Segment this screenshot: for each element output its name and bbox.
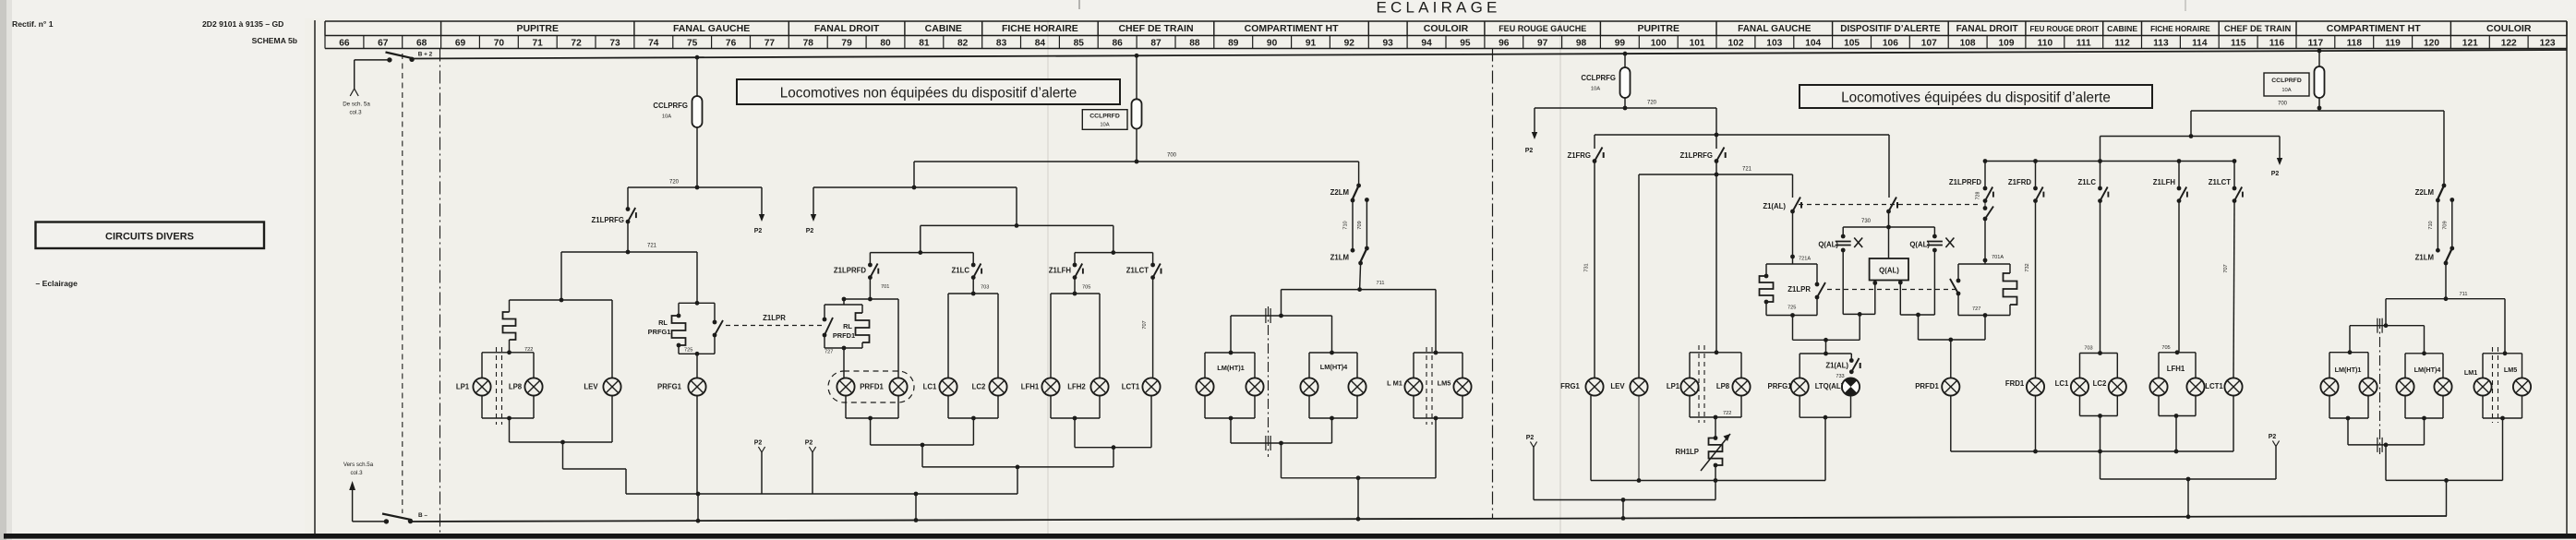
wire from B+2 to De sch. 5a arrow — [355, 59, 390, 61]
wire 368 line left — [1793, 339, 1860, 341]
svg-text:97: 97 — [1537, 38, 1548, 48]
svg-text:COULOIR: COULOIR — [2486, 23, 2532, 34]
rheostat RH1LP — [1715, 417, 1716, 438]
svg-text:Q(AL): Q(AL) — [1879, 267, 1899, 275]
wire 146 horizontal bar — [1595, 134, 1889, 136]
svg-text:111: 111 — [2076, 38, 2091, 48]
svg-text:720: 720 — [1647, 101, 1657, 106]
lamp LEV — [603, 378, 620, 395]
svg-text:LM1: LM1 — [2464, 368, 2477, 377]
svg-text:732: 732 — [2025, 263, 2030, 271]
wire lamp group top LP/LEV — [510, 299, 613, 301]
svg-text:CIRCUITS DIVERS: CIRCUITS DIVERS — [105, 232, 194, 243]
wire Z1LCT down to lamp LCT1 wire 707 — [1152, 278, 1154, 378]
svg-text:PRFG1: PRFG1 — [648, 328, 671, 336]
lamp LM(HT)1 right — [1246, 378, 1263, 395]
svg-text:RH1LP: RH1LP — [1675, 448, 1699, 456]
svg-text:FEU ROUGE DROIT: FEU ROUGE DROIT — [2029, 25, 2099, 33]
svg-text:10A: 10A — [662, 114, 671, 120]
svg-text:87: 87 — [1150, 38, 1162, 48]
svg-text:74: 74 — [648, 38, 659, 48]
wire drop 999 to 506 line — [921, 445, 923, 467]
wire LC tee — [948, 293, 998, 294]
wire 721 left drop to lamp LEV right — [1638, 174, 1640, 378]
svg-text:721: 721 — [1742, 167, 1752, 173]
switch Z1(AL) 733 above LTQ lamp — [1850, 354, 1852, 361]
wire to node 721A — [1792, 211, 1794, 257]
svg-text:68: 68 — [416, 38, 427, 48]
wire Z1LPRFG to node 721 right — [1715, 162, 1717, 175]
wire drop to LM(HT)4 tee — [1331, 316, 1333, 353]
svg-text:CHEF DE TRAIN: CHEF DE TRAIN — [2224, 23, 2292, 33]
LM(HT)4 bottom tee — [1308, 396, 1310, 418]
svg-text:LP1: LP1 — [456, 383, 470, 391]
wire 519 line — [2101, 478, 2277, 480]
wire LM feed top bar — [1231, 315, 1332, 317]
svg-text:– Eclairage: – Eclairage — [36, 279, 78, 288]
lamp LP8 right — [1732, 378, 1750, 395]
lamp LC1 right — [2071, 378, 2088, 395]
svg-text:Vers sch.5a: Vers sch.5a — [343, 462, 374, 468]
svg-text:710: 710 — [2428, 221, 2434, 229]
svg-text:703: 703 — [981, 285, 989, 291]
svg-text:Z1(AL): Z1(AL) — [1825, 362, 1848, 370]
switch Z1LC right — [2100, 162, 2101, 189]
lamp LM(HT)4 right b — [2434, 378, 2451, 395]
svg-text:LFH1: LFH1 — [1021, 383, 1040, 391]
arrow to P2 no.2 — [813, 187, 814, 220]
svg-text:Q(AL): Q(AL) — [1818, 241, 1838, 249]
switch Z1LFH right — [2178, 162, 2180, 189]
wire LFH/LCT collector — [1075, 447, 1151, 449]
svg-text:88: 88 — [1189, 38, 1200, 48]
svg-text:P2: P2 — [754, 440, 763, 447]
svg-text:COULOIR: COULOIR — [1424, 23, 1469, 34]
relay RL PRFG1 loop — [679, 302, 715, 304]
LM(HT)4 bottom tee right — [2404, 396, 2406, 418]
wire 720 to 146 bar — [1715, 108, 1717, 135]
wire RL PRFD1 to lamp PRFD1 left — [843, 348, 845, 378]
arrow to P2 right of CCLPRFD — [2279, 137, 2281, 164]
wire drop 992 to bottom bus — [915, 494, 917, 521]
svg-text:106: 106 — [1883, 38, 1898, 48]
svg-text:COMPARTIMENT HT: COMPARTIMENT HT — [2327, 23, 2421, 34]
svg-text:728: 728 — [1976, 192, 1981, 200]
svg-text:CCLPRFD: CCLPRFD — [2271, 78, 2302, 84]
box title: Locomotives equipees du dispositif d alerte — [1800, 85, 2152, 108]
svg-text:LP8: LP8 — [1716, 382, 1730, 390]
lamp LM(HT)4 left — [1300, 378, 1318, 395]
svg-text:PRFD1: PRFD1 — [833, 331, 855, 340]
svg-text:78: 78 — [803, 38, 814, 48]
svg-text:LFH1: LFH1 — [2167, 365, 2185, 373]
lamp LC2 — [989, 378, 1006, 395]
svg-text:110: 110 — [2038, 38, 2053, 48]
svg-text:PRFG1: PRFG1 — [1768, 382, 1793, 390]
wire LM bottom collector 480 — [1231, 442, 1332, 444]
svg-text:102: 102 — [1728, 38, 1744, 48]
wire LC tee right — [2080, 353, 2118, 354]
fuse CCLPRFG right — [1623, 52, 1628, 56]
svg-text:Z1LFH: Z1LFH — [2153, 178, 2176, 186]
wire 711 right horizontal — [2386, 298, 2505, 300]
wire 721 right end drop to Z1(AL) pole1 — [1792, 174, 1794, 198]
wire lamp PRFG1 down to return — [696, 396, 698, 494]
lamp LFH1 — [1041, 378, 1059, 395]
svg-text:Z1LM: Z1LM — [2415, 254, 2434, 262]
svg-text:10A: 10A — [1100, 123, 1109, 128]
wire drop to lamp PRFD1 right half — [1950, 340, 1952, 378]
svg-text:118: 118 — [2347, 38, 2363, 48]
lamp LP8 — [524, 378, 542, 395]
svg-text:722: 722 — [1723, 411, 1731, 416]
wire 146 bar right end drop to Z1(AL) pole2 — [1888, 135, 1890, 198]
wire switch row feed bar — [921, 224, 1113, 226]
svg-text:77: 77 — [764, 38, 776, 48]
wire collector 506 — [922, 466, 1113, 468]
svg-text:B –: B – — [418, 512, 427, 519]
svg-text:CCLPRFD: CCLPRFD — [1089, 114, 1120, 120]
lamp LM5 right — [2513, 378, 2531, 395]
wire drop to bottom bus right end — [2446, 480, 2448, 516]
wire 720 right half — [1535, 107, 1716, 109]
svg-text:700: 700 — [2278, 102, 2288, 107]
svg-text:76: 76 — [726, 38, 737, 48]
relay loop RL right (727) — [1984, 260, 1986, 264]
wire drop to bottom bus at 1471 — [1357, 478, 1359, 519]
svg-text:70: 70 — [494, 38, 505, 48]
svg-text:RL: RL — [658, 318, 668, 327]
wire 711 right drop to LM1/LM5 tee right — [2504, 299, 2506, 354]
svg-text:L M1: L M1 — [1387, 379, 1402, 388]
wire 700 drop at 990 — [913, 162, 915, 187]
svg-text:10A: 10A — [1591, 87, 1600, 92]
lamp LCT1 — [1142, 378, 1160, 395]
relay RL PRFD1 loop — [843, 299, 845, 305]
header table horizontal rules — [325, 20, 2567, 22]
wire drop to bottom bus 2370 — [2187, 479, 2189, 517]
svg-text:Locomotives non équipées du di: Locomotives non équipées du dispositif d… — [780, 86, 1077, 102]
wires Q(AL) box bottom stubs — [1874, 281, 1876, 315]
wire 147 bar right half — [2101, 136, 2281, 138]
changeover switch Z2LM right — [2436, 184, 2446, 203]
resistor 722 above LP lamps — [509, 300, 511, 312]
svg-text:116: 116 — [2269, 38, 2285, 48]
svg-text:FANAL DROIT: FANAL DROIT — [1956, 24, 2018, 34]
lamp LM(HT)4 right — [1348, 378, 1366, 395]
svg-text:705: 705 — [1082, 285, 1090, 291]
wire bottom bus B- — [411, 516, 2447, 522]
svg-text:79: 79 — [841, 38, 852, 48]
wire 711 left drop — [1281, 290, 1282, 316]
svg-text:LEV: LEV — [1610, 382, 1625, 390]
arrow to Vers sch.5a — [349, 481, 355, 490]
wire collector 489 right half — [1951, 450, 2233, 452]
lamp LC1 — [939, 378, 957, 395]
svg-text:FICHE HORAIRE: FICHE HORAIRE — [1002, 23, 1078, 34]
svg-text:85: 85 — [1074, 38, 1085, 48]
svg-text:121: 121 — [2462, 38, 2478, 48]
lamp PRFD1 left — [837, 378, 854, 395]
switch Z1LFH — [1073, 263, 1083, 280]
wire drop 2274 to 519 line — [2100, 451, 2101, 479]
svg-text:PUPITRE: PUPITRE — [1637, 23, 1679, 34]
svg-text:RL: RL — [843, 322, 852, 330]
svg-text:112: 112 — [2114, 38, 2130, 48]
svg-text:92: 92 — [1344, 38, 1355, 48]
title block box CIRCUITS DIVERS — [36, 222, 265, 249]
node 720 wire — [628, 186, 762, 188]
svg-text:P2: P2 — [2269, 434, 2277, 440]
wire 730 bar — [1843, 226, 1934, 228]
wire 732 to lamp FRD1 — [2035, 201, 2037, 378]
wire top bus B+2 — [412, 50, 2567, 59]
svg-text:83: 83 — [996, 38, 1007, 48]
svg-text:LM(HT)1: LM(HT)1 — [1217, 364, 1245, 372]
svg-text:720: 720 — [669, 180, 680, 186]
partition dashes between LM1 and LM5 right — [2492, 347, 2494, 423]
wire Z1LPRFD down to node 701 — [869, 278, 871, 299]
box title: Locomotives non equipees du dispositif d alerte — [737, 79, 1120, 104]
svg-text:90: 90 — [1267, 38, 1278, 48]
wire collector 482 — [871, 444, 974, 446]
partition dash-dot between LM(HT)1 and LM(HT)4 — [1268, 306, 1270, 457]
svg-text:96: 96 — [1499, 38, 1510, 48]
svg-text:95: 95 — [1460, 38, 1471, 48]
fuse CCLPRFD left with label box — [1135, 54, 1139, 58]
wire LFH tee right — [2159, 352, 2196, 354]
svg-text:ECLAIRAGE: ECLAIRAGE — [1376, 0, 1500, 17]
svg-text:Z1LC: Z1LC — [952, 267, 970, 275]
switch Z1LCT — [1150, 263, 1161, 280]
svg-text:81: 81 — [919, 38, 930, 48]
partition dashes between LP1 and LP8 right — [1698, 345, 1700, 423]
dash-dot column boundary line 68/69 — [439, 49, 441, 534]
wire 707 right to lamp LCT1 — [2233, 201, 2234, 378]
svg-text:LC1: LC1 — [923, 383, 937, 391]
lamp PRFG1 — [688, 378, 705, 395]
partition dash-dot right cluster — [2379, 318, 2381, 454]
switch Z1LPRFD right — [1984, 162, 1986, 189]
lamp LFH1 right a — [2149, 378, 2167, 395]
svg-text:LC2: LC2 — [2093, 379, 2107, 388]
wire 721 horizontal — [561, 251, 697, 253]
svg-text:Rectif. n° 1: Rectif. n° 1 — [12, 19, 54, 29]
wire 720 down to Z1LPRFG — [627, 187, 629, 210]
changeover switch Z1LM right — [2444, 246, 2455, 266]
svg-text:122: 122 — [2501, 38, 2517, 48]
svg-text:72: 72 — [571, 38, 582, 48]
arrow to P2 right top no.1 — [1534, 108, 1535, 138]
wire LEV branch down — [611, 300, 613, 378]
svg-text:Q(AL): Q(AL) — [1909, 241, 1930, 249]
wire 710 — [1352, 200, 1354, 250]
contact Q(AL) left — [1842, 227, 1844, 236]
lamp LEV right — [1630, 378, 1647, 395]
wire 721 left drop to lamp group node — [560, 252, 562, 300]
svg-text:80: 80 — [880, 38, 891, 48]
lamp LP1 right — [1680, 378, 1698, 395]
svg-text:108: 108 — [1960, 38, 1976, 48]
wire LP bottom tee right node 722 — [1689, 396, 1691, 417]
LM1/LM5 bottom tee right — [2482, 396, 2484, 418]
svg-text:701: 701 — [881, 284, 889, 290]
wire lamp group bottom collector — [509, 418, 511, 442]
svg-text:104: 104 — [1805, 38, 1821, 48]
svg-text:73: 73 — [609, 38, 620, 48]
switch Z1LPRFG right — [1715, 135, 1717, 149]
wire LM feed top bar right cluster — [2350, 325, 2425, 327]
wire Z1LPR loop output — [1792, 316, 1794, 341]
svg-text:99: 99 — [1615, 38, 1626, 48]
svg-text:66: 66 — [339, 38, 350, 48]
svg-text:98: 98 — [1576, 38, 1587, 48]
svg-text:FRD1: FRD1 — [2005, 379, 2025, 388]
svg-text:FRG1: FRG1 — [1560, 382, 1580, 390]
svg-text:703: 703 — [2084, 346, 2092, 352]
switch Z1LCT right — [2233, 162, 2235, 189]
wire 700 right half — [2191, 110, 2319, 112]
svg-text:105: 105 — [1844, 38, 1860, 48]
lamp LM5 — [1453, 378, 1471, 395]
svg-text:709: 709 — [1357, 221, 1363, 229]
wire 731 Z1FRG to lamp FRG1 — [1594, 162, 1595, 378]
wire LP1/LP8 right tee — [1690, 352, 1741, 354]
schematic frame bottom thick bar — [4, 534, 2576, 539]
wire return line left half lamps — [626, 493, 1017, 495]
LM1/LM5 bottom tee — [1413, 396, 1414, 418]
switch Z1LPRFG — [626, 207, 636, 223]
wire collector 520 right cluster — [2386, 479, 2503, 481]
LM(HT)1 bottom tee — [1204, 396, 1206, 418]
fuse CCLPRFG left — [695, 55, 700, 60]
wire drop to LM(HT)1 tee — [1230, 316, 1232, 353]
wire drop to bottom bus 1758 — [1622, 500, 1624, 519]
svg-text:2D2 9101 à 9135 – GD: 2D2 9101 à 9135 – GD — [202, 19, 283, 29]
svg-text:Z2LM: Z2LM — [1330, 188, 1349, 197]
svg-text:86: 86 — [1113, 38, 1124, 48]
svg-text:109: 109 — [1999, 38, 2015, 48]
lamp LC2 right — [2109, 378, 2126, 395]
svg-text:730: 730 — [1861, 219, 1872, 224]
wire 700 drop to Z2LM — [1358, 162, 1360, 186]
svg-text:LCT1: LCT1 — [2205, 382, 2223, 390]
wire Z1LC down to node 703 — [972, 278, 974, 294]
svg-text:LCT1: LCT1 — [1122, 383, 1140, 391]
wire 700 right to Z2LM right — [2319, 110, 2444, 112]
svg-text:705: 705 — [2161, 345, 2170, 351]
relay box Q(AL) — [1888, 227, 1890, 258]
wire drop to switch row feed — [1016, 187, 1017, 225]
svg-text:Z1FRG: Z1FRG — [1567, 151, 1591, 160]
contact Q(AL) right — [1933, 227, 1935, 236]
svg-text:731: 731 — [1584, 263, 1590, 271]
svg-text:LP8: LP8 — [509, 383, 523, 391]
svg-text:Z1LPRFG: Z1LPRFG — [591, 216, 624, 224]
svg-text:PUPITRE: PUPITRE — [516, 23, 559, 34]
svg-text:107: 107 — [1921, 38, 1937, 48]
svg-text:PRFD1: PRFD1 — [1915, 382, 1939, 390]
svg-text:LP1: LP1 — [1667, 382, 1680, 390]
fuse CCLPRFD right with label box — [2317, 49, 2322, 54]
svg-text:PRFD1: PRFD1 — [860, 383, 884, 391]
relay loop Z1LPR — [1792, 257, 1794, 264]
wire Z1LM to node 711 — [1360, 263, 1361, 290]
svg-text:CABINE: CABINE — [925, 23, 962, 34]
svg-text:col.3: col.3 — [349, 110, 362, 116]
svg-text:SCHEMA 5b: SCHEMA 5b — [252, 36, 297, 45]
switch B- (bottom left knife switch) — [382, 514, 413, 524]
svg-text:Z1FRD: Z1FRD — [2008, 178, 2031, 186]
wire LP1/LP8 bottom tee — [481, 396, 483, 418]
svg-text:P2: P2 — [805, 440, 813, 447]
switch B+2 (top left knife switch) — [386, 53, 415, 63]
svg-text:FEU ROUGE GAUCHE: FEU ROUGE GAUCHE — [1499, 24, 1586, 33]
svg-text:75: 75 — [687, 38, 698, 48]
svg-text:69: 69 — [455, 38, 466, 48]
svg-text:117: 117 — [2308, 38, 2324, 48]
svg-text:FICHE HORAIRE: FICHE HORAIRE — [2150, 25, 2210, 33]
changeover switch Z1LM — [1358, 246, 1369, 266]
wire 710 right — [2437, 200, 2438, 250]
half divider dash-dot line — [1492, 49, 1494, 520]
wire Q(AL) right contact to bar 341 — [1933, 250, 1935, 315]
wire Z1LPRFG to node 721 — [627, 222, 629, 252]
wire switch feed bar 174 right half — [1985, 161, 2234, 162]
wire LC bottom tee — [947, 396, 949, 418]
svg-text:P2: P2 — [2271, 171, 2280, 177]
svg-text:P2: P2 — [1526, 435, 1535, 441]
switch Z1LC — [971, 263, 981, 280]
svg-text:Z1LC: Z1LC — [2078, 178, 2097, 186]
svg-text:100: 100 — [1651, 38, 1667, 48]
svg-text:Z1LPRFD: Z1LPRFD — [1949, 178, 1981, 186]
svg-text:709: 709 — [2442, 221, 2448, 229]
svg-text:84: 84 — [1035, 38, 1046, 48]
svg-text:114: 114 — [2192, 38, 2208, 48]
svg-text:123: 123 — [2540, 38, 2556, 48]
svg-text:CHEF DE TRAIN: CHEF DE TRAIN — [1118, 23, 1193, 34]
svg-text:Locomotives équipées du dispos: Locomotives équipées du dispositif d’ale… — [1841, 90, 2111, 106]
svg-text:93: 93 — [1383, 38, 1394, 48]
svg-text:721A: 721A — [1799, 257, 1811, 262]
svg-text:101: 101 — [1690, 38, 1705, 48]
wire collector 518 — [1282, 477, 1437, 479]
svg-text:113: 113 — [2153, 38, 2169, 48]
wire to node 701A — [1984, 219, 1986, 260]
lamp LM(HT)4 right a — [2396, 378, 2413, 395]
lamp LM(HT)1 right a — [2320, 378, 2338, 395]
svg-text:LM5: LM5 — [1438, 379, 1451, 388]
svg-text:LEV: LEV — [584, 383, 598, 391]
wire LM bottom collector 482 right — [2348, 444, 2425, 446]
wire PRFD1 bottom tee — [845, 396, 847, 418]
svg-text:B + 2: B + 2 — [418, 52, 433, 58]
svg-text:103: 103 — [1766, 38, 1782, 48]
wire PRFG1/LTQ bottom tee — [1799, 396, 1800, 418]
svg-text:91: 91 — [1306, 38, 1317, 48]
wire to node 730 — [1888, 211, 1890, 227]
dashed oval around PRFD1 lamp pair — [828, 371, 914, 402]
wire Q(AL) left contact to bar 340 — [1842, 250, 1844, 314]
svg-text:CCLPRFG: CCLPRFG — [1581, 74, 1616, 82]
svg-text:Z1LPRFD: Z1LPRFD — [834, 267, 866, 275]
switch Z1FRD — [2035, 162, 2037, 189]
svg-text:PRFG1: PRFG1 — [657, 383, 682, 391]
svg-text:711: 711 — [1377, 281, 1385, 286]
arrow to P2 no.1 — [761, 187, 763, 220]
wire LFH bottom tee right — [2158, 396, 2160, 416]
